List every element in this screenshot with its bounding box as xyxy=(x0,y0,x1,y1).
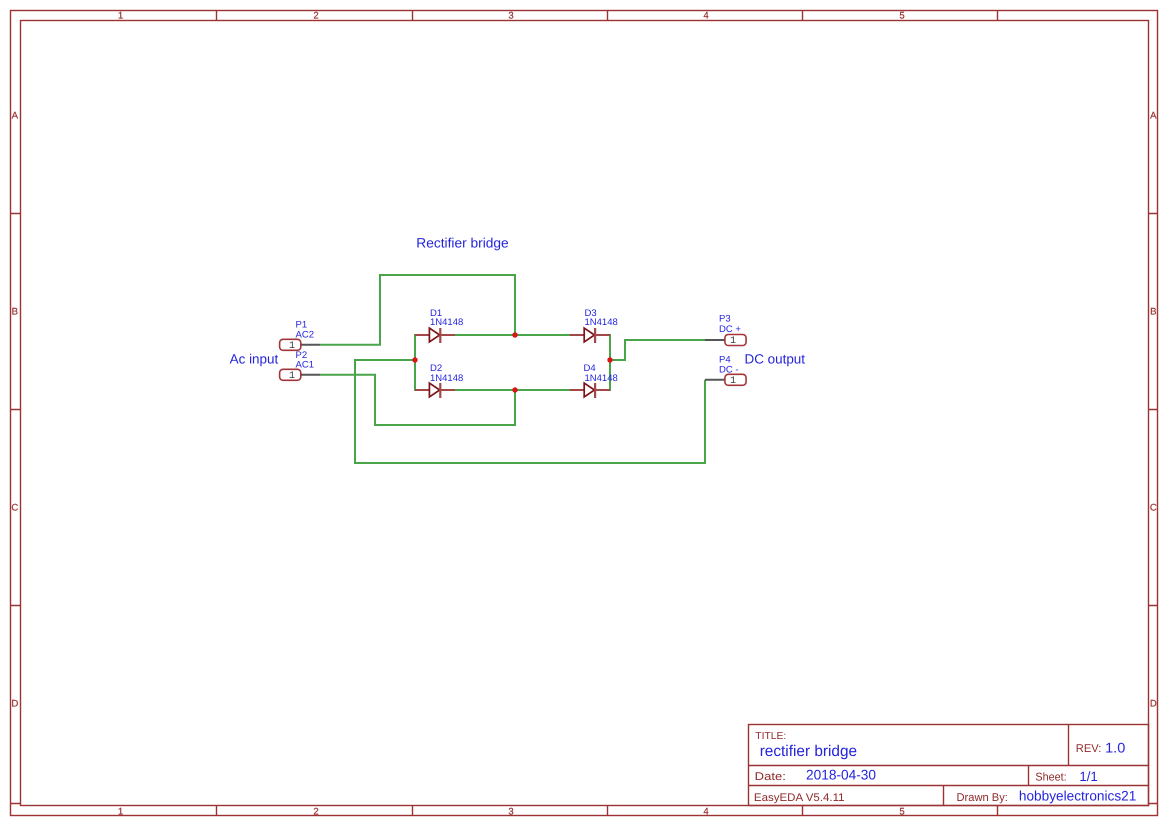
title block row line 2 xyxy=(749,785,1149,787)
svg-text:AC1: AC1 xyxy=(296,359,314,370)
svg-text:REV:: REV: xyxy=(1076,743,1102,755)
frame column ticks bottom xyxy=(217,806,998,816)
wire net AC2: P1 to D1/D3 junction xyxy=(320,275,515,345)
pin P4 xyxy=(705,374,746,387)
svg-text:DC -: DC - xyxy=(719,365,739,376)
svg-text:D: D xyxy=(11,699,18,710)
svg-text:Drawn By:: Drawn By: xyxy=(957,792,1008,804)
svg-text:1: 1 xyxy=(730,336,736,347)
diode D2 xyxy=(415,383,455,398)
frame column labels bottom xyxy=(118,807,905,818)
svg-text:B: B xyxy=(12,307,18,318)
svg-text:1N4148: 1N4148 xyxy=(430,317,463,328)
svg-text:1: 1 xyxy=(118,11,123,22)
pin P2 xyxy=(280,369,320,382)
svg-text:Rectifier bridge: Rectifier bridge xyxy=(416,235,508,250)
svg-text:1N4148: 1N4148 xyxy=(430,373,463,384)
frame row labels right xyxy=(1150,111,1157,710)
diode D1 xyxy=(415,328,455,343)
junction node D1a/D2a/DC- xyxy=(412,357,417,362)
diode D4 xyxy=(570,383,610,398)
svg-text:1.0: 1.0 xyxy=(1105,739,1125,755)
title block divider REV xyxy=(1068,725,1070,766)
wire net DC+: junction to P3 xyxy=(610,340,705,360)
svg-text:D: D xyxy=(1150,699,1157,710)
pin P1 labels xyxy=(296,320,314,341)
svg-text:Sheet:: Sheet: xyxy=(1035,772,1066,784)
svg-text:Ac input: Ac input xyxy=(230,351,279,366)
svg-text:1N4148: 1N4148 xyxy=(585,373,618,384)
frame row ticks right xyxy=(1149,214,1158,804)
title block row line 1 xyxy=(749,765,1149,767)
svg-text:DC output: DC output xyxy=(745,351,806,366)
diode D4 labels xyxy=(584,363,618,384)
svg-text:rectifier bridge: rectifier bridge xyxy=(760,743,857,760)
junction node D3c/D4c/DC+ xyxy=(607,357,612,362)
svg-text:B: B xyxy=(1150,307,1156,318)
svg-text:3: 3 xyxy=(508,807,513,818)
svg-text:A: A xyxy=(1150,111,1157,122)
wire vertical D3c-D4c xyxy=(609,334,611,391)
svg-text:TITLE:: TITLE: xyxy=(755,731,786,742)
svg-text:C: C xyxy=(11,503,18,514)
pin P1 xyxy=(280,339,320,352)
svg-text:DC +: DC + xyxy=(719,324,741,335)
svg-text:3: 3 xyxy=(508,11,513,22)
svg-text:1/1: 1/1 xyxy=(1079,769,1097,784)
pin P4 labels xyxy=(719,354,739,375)
wire vertical D1a-D2a xyxy=(414,334,416,391)
svg-text:1: 1 xyxy=(118,807,123,818)
pin P3 labels xyxy=(719,314,741,335)
svg-text:hobbyelectronics21: hobbyelectronics21 xyxy=(1019,788,1136,803)
wire row D1-D3 xyxy=(454,334,570,336)
svg-text:C: C xyxy=(1150,503,1157,514)
title block divider Sheet xyxy=(1028,766,1030,786)
frame column labels top xyxy=(118,11,905,22)
svg-text:4: 4 xyxy=(703,11,709,22)
svg-text:EasyEDA V5.4.11: EasyEDA V5.4.11 xyxy=(754,792,845,804)
svg-text:4: 4 xyxy=(703,807,709,818)
diode D3 xyxy=(570,328,610,343)
pin P3 xyxy=(705,335,746,348)
svg-text:AC2: AC2 xyxy=(296,329,314,340)
title block box xyxy=(749,725,1149,806)
wire row D2-D4 xyxy=(454,389,570,391)
junction node AC2/D1c/D3a xyxy=(512,332,517,337)
svg-text:1: 1 xyxy=(730,376,736,387)
svg-text:1N4148: 1N4148 xyxy=(585,317,618,328)
svg-text:1: 1 xyxy=(289,371,295,382)
svg-text:5: 5 xyxy=(899,807,904,818)
frame row ticks left xyxy=(10,214,20,804)
svg-text:2: 2 xyxy=(313,11,318,22)
diode D1 labels xyxy=(430,308,463,328)
pin P2 labels xyxy=(296,350,314,370)
wire net AC1: P2 to D2/D4 junction xyxy=(320,375,515,425)
junction node AC1/D2c/D4a xyxy=(512,387,517,392)
svg-text:1: 1 xyxy=(289,341,295,352)
svg-text:2018-04-30: 2018-04-30 xyxy=(806,767,876,783)
svg-text:A: A xyxy=(12,111,19,122)
diode D3 labels xyxy=(585,308,618,328)
diode D2 labels xyxy=(430,363,463,384)
frame row labels left xyxy=(11,111,18,710)
svg-text:2: 2 xyxy=(313,807,318,818)
svg-text:5: 5 xyxy=(899,11,904,22)
title block divider Drawn By xyxy=(943,786,945,806)
wire net DC-: P4 to D1/D2 anodes xyxy=(355,360,705,463)
svg-text:Date:: Date: xyxy=(755,771,786,783)
frame column ticks top xyxy=(217,10,998,20)
